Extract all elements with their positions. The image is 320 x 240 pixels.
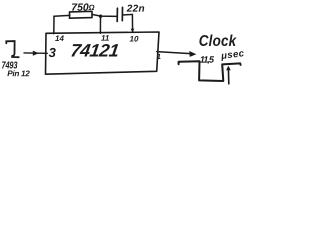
svg-text:3: 3 <box>49 45 57 60</box>
svg-text:Pin 12: Pin 12 <box>7 69 30 78</box>
svg-text:750Ω: 750Ω <box>71 3 94 14</box>
svg-text:74121: 74121 <box>69 41 120 61</box>
svg-text:Clock: Clock <box>199 33 237 50</box>
wire pin14 vertical <box>53 16 55 33</box>
svg-text:11: 11 <box>101 34 110 43</box>
arrowhead clock output <box>189 51 196 57</box>
pulse width arrowhead <box>226 66 231 71</box>
wire arrow from pin 1 to clock <box>157 52 191 54</box>
wire resistor to junction <box>92 14 117 16</box>
arrowhead into pin 3 <box>33 51 39 56</box>
capacitor C 22n right plate <box>121 7 123 20</box>
IC U1 74121 monostable body <box>46 32 160 74</box>
wire arrow into pin 3 <box>24 52 47 54</box>
svg-text:1: 1 <box>157 52 161 61</box>
arrowhead into pin 10 <box>131 29 135 33</box>
svg-text:11,5: 11,5 <box>200 55 215 65</box>
input falling-edge waveform symbol <box>6 41 18 57</box>
resistor R 750 ohm box <box>70 11 93 18</box>
wire junction down to pin 11 <box>99 16 101 33</box>
svg-text:22n: 22n <box>126 4 145 15</box>
svg-text:14: 14 <box>55 34 64 43</box>
clock output waveform negative pulse <box>179 61 241 81</box>
junction node dot <box>99 15 102 18</box>
wire top left horizontal <box>54 14 70 17</box>
pulse width arrow up <box>227 68 229 84</box>
svg-text:10: 10 <box>129 35 138 44</box>
svg-text:μsec: μsec <box>220 48 246 62</box>
wire capacitor to pin 10 <box>123 14 133 32</box>
capacitor C 22n left plate <box>116 8 118 21</box>
